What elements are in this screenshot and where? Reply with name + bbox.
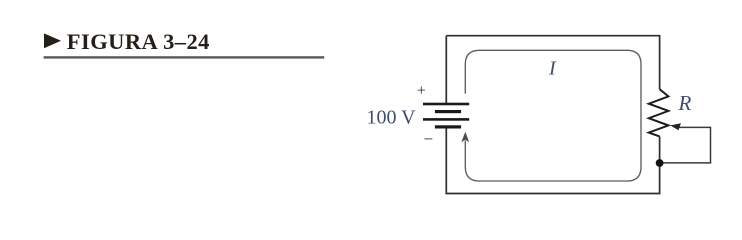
svg-text:100 V: 100 V [367, 106, 417, 128]
svg-text:R: R [678, 91, 692, 115]
wire: outer loop right lower [659, 136, 661, 194]
battery BT1 plate long top [423, 103, 469, 106]
svg-text:−: − [424, 129, 434, 148]
wire: outer loop top [446, 35, 659, 37]
svg-text:FIGURA 3–24: FIGURA 3–24 [67, 29, 210, 54]
current loop I (wire with arrow) [465, 50, 641, 181]
battery BT1 plate short upper [435, 110, 461, 113]
wire: outer loop right upper [659, 35, 661, 89]
battery BT1 plate short bottom [435, 125, 461, 128]
battery BT1 plate long lower [423, 118, 469, 121]
figure caption arrow [44, 33, 61, 48]
svg-text:I: I [548, 58, 557, 80]
wire: wiper feedback right vertical [710, 127, 712, 163]
resistor R (rheostat body) [649, 89, 669, 136]
caption rule [44, 56, 325, 58]
junction dot [656, 159, 664, 167]
wire: wiper feedback bottom horizontal [660, 162, 712, 164]
wire: wiper arm horizontal [677, 126, 711, 128]
wire: outer loop left lower (battery minus lead) [445, 127, 447, 195]
current loop arrowhead [461, 132, 469, 142]
svg-text:+: + [417, 83, 426, 100]
wire: outer loop bottom [446, 193, 659, 195]
wire: outer loop left upper (battery plus lead) [445, 36, 447, 104]
wiper arrowhead [670, 123, 681, 130]
